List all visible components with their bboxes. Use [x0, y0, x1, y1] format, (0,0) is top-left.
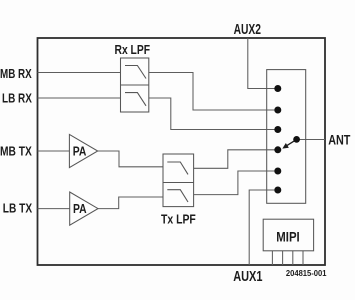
svg-text:PA: PA [73, 145, 87, 159]
svg-text:MB RX: MB RX [0, 67, 32, 81]
svg-text:ANT: ANT [328, 133, 350, 149]
svg-text:PA: PA [73, 202, 87, 216]
svg-text:AUX1: AUX1 [233, 268, 263, 285]
svg-text:Tx LPF: Tx LPF [161, 213, 196, 227]
svg-text:Rx LPF: Rx LPF [115, 43, 151, 57]
svg-text:MIPI: MIPI [276, 229, 299, 244]
svg-text:LB TX: LB TX [3, 202, 33, 216]
svg-text:MB TX: MB TX [0, 145, 32, 159]
svg-text:204815-001: 204815-001 [286, 268, 327, 278]
svg-text:LB RX: LB RX [2, 91, 32, 105]
svg-text:AUX2: AUX2 [234, 21, 261, 38]
